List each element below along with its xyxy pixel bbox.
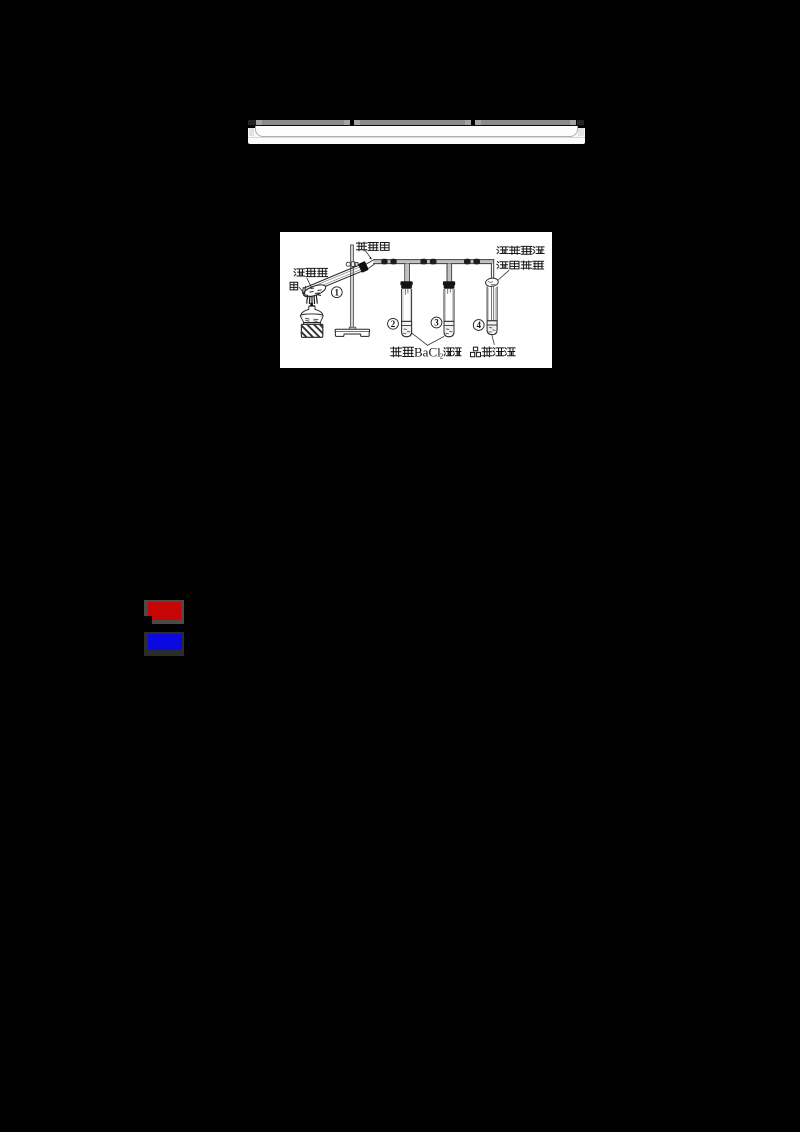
- downpipe to tube 2: [405, 264, 410, 282]
- test tube 4: [487, 287, 497, 335]
- tab segment 3: [475, 120, 577, 125]
- leader arrow for glass tube: [365, 251, 371, 258]
- white underlay left corner: [248, 128, 262, 138]
- blue analysis tag: [144, 632, 184, 656]
- V leader to BaCl2 label: [411, 333, 444, 346]
- iron stand base: [335, 329, 370, 331]
- inner tube stub 2: [405, 289, 408, 295]
- svg-text:1: 1: [335, 287, 340, 297]
- red answer tag: [144, 600, 184, 624]
- horizontal glass pipe: [374, 260, 494, 264]
- circled number 2: [388, 318, 399, 329]
- label: zuliang BaCl2 rongye: [391, 347, 402, 357]
- liquid in tube 4: [488, 321, 497, 333]
- label: jinyou jianrong (cotton w/ alkali) line1: [497, 247, 508, 254]
- wooden block (hatched): [301, 324, 322, 337]
- label: tong (copper): [290, 282, 298, 290]
- inner pipe into tube 4: [491, 286, 493, 327]
- svg-text:2: 2: [440, 353, 444, 361]
- dark right cap: [577, 120, 585, 125]
- stand rod collar: [349, 327, 356, 329]
- white sheet with rounded bottom corners: [255, 126, 578, 137]
- downpipe to tube 3: [447, 264, 452, 282]
- stopper of tube 2: [400, 281, 412, 285]
- stopper of tube 1: [358, 261, 369, 273]
- leader for copper: [299, 287, 304, 293]
- white underlay right corner: [571, 128, 585, 138]
- label: nong liusuan: [294, 269, 305, 276]
- circled number 1: [331, 287, 342, 298]
- svg-text:2: 2: [391, 319, 396, 329]
- tab segment 1: [256, 120, 350, 125]
- liquid in tube 3: [445, 321, 454, 334]
- svg-text:4: 4: [476, 320, 481, 330]
- iron stand rod: [351, 245, 354, 328]
- glass elbow from stopper: [367, 260, 376, 268]
- leader for cotton: [499, 271, 509, 280]
- cotton plug: [485, 277, 499, 287]
- circled number 4: [473, 320, 484, 331]
- lamp wick: [310, 304, 313, 324]
- alcohol lamp body: [301, 306, 323, 315]
- label line2: [497, 262, 508, 269]
- lower white strip: [248, 137, 585, 144]
- inner tube stub 3: [448, 289, 451, 294]
- light left cap: [249, 128, 255, 136]
- top tab bar: dark left cap: [248, 120, 256, 125]
- rubber connector pair 2: [420, 259, 427, 265]
- rubber connector pair 3: [464, 259, 471, 265]
- light right cap: [578, 128, 584, 136]
- leader for tube 4: [492, 335, 494, 344]
- label: pinhong rongye: [471, 347, 481, 357]
- leader for H2SO4: [307, 278, 312, 288]
- test tube 3: [444, 289, 454, 337]
- copper pieces: [310, 288, 321, 293]
- stopper of tube 3: [443, 281, 455, 285]
- test tube 1 (tilted, Cu + H2SO4): [307, 270, 365, 294]
- tab segment 2: [354, 120, 471, 125]
- circled number 3: [431, 317, 442, 328]
- liquid in tube 2: [402, 321, 411, 334]
- rubber connector pair 1: [381, 259, 387, 265]
- tube 1 heated end (ellipse): [302, 282, 327, 299]
- clamp: [346, 262, 350, 266]
- chemistry apparatus figure: [280, 232, 552, 368]
- svg-text:BaCl: BaCl: [414, 345, 441, 360]
- svg-text:3: 3: [434, 318, 439, 328]
- dark seam under tabs: [248, 125, 584, 126]
- label: boli guan (glass tube): [357, 242, 367, 251]
- test tube 2: [402, 289, 412, 337]
- downpipe to tube 4: [491, 260, 493, 279]
- flame: [307, 296, 317, 304]
